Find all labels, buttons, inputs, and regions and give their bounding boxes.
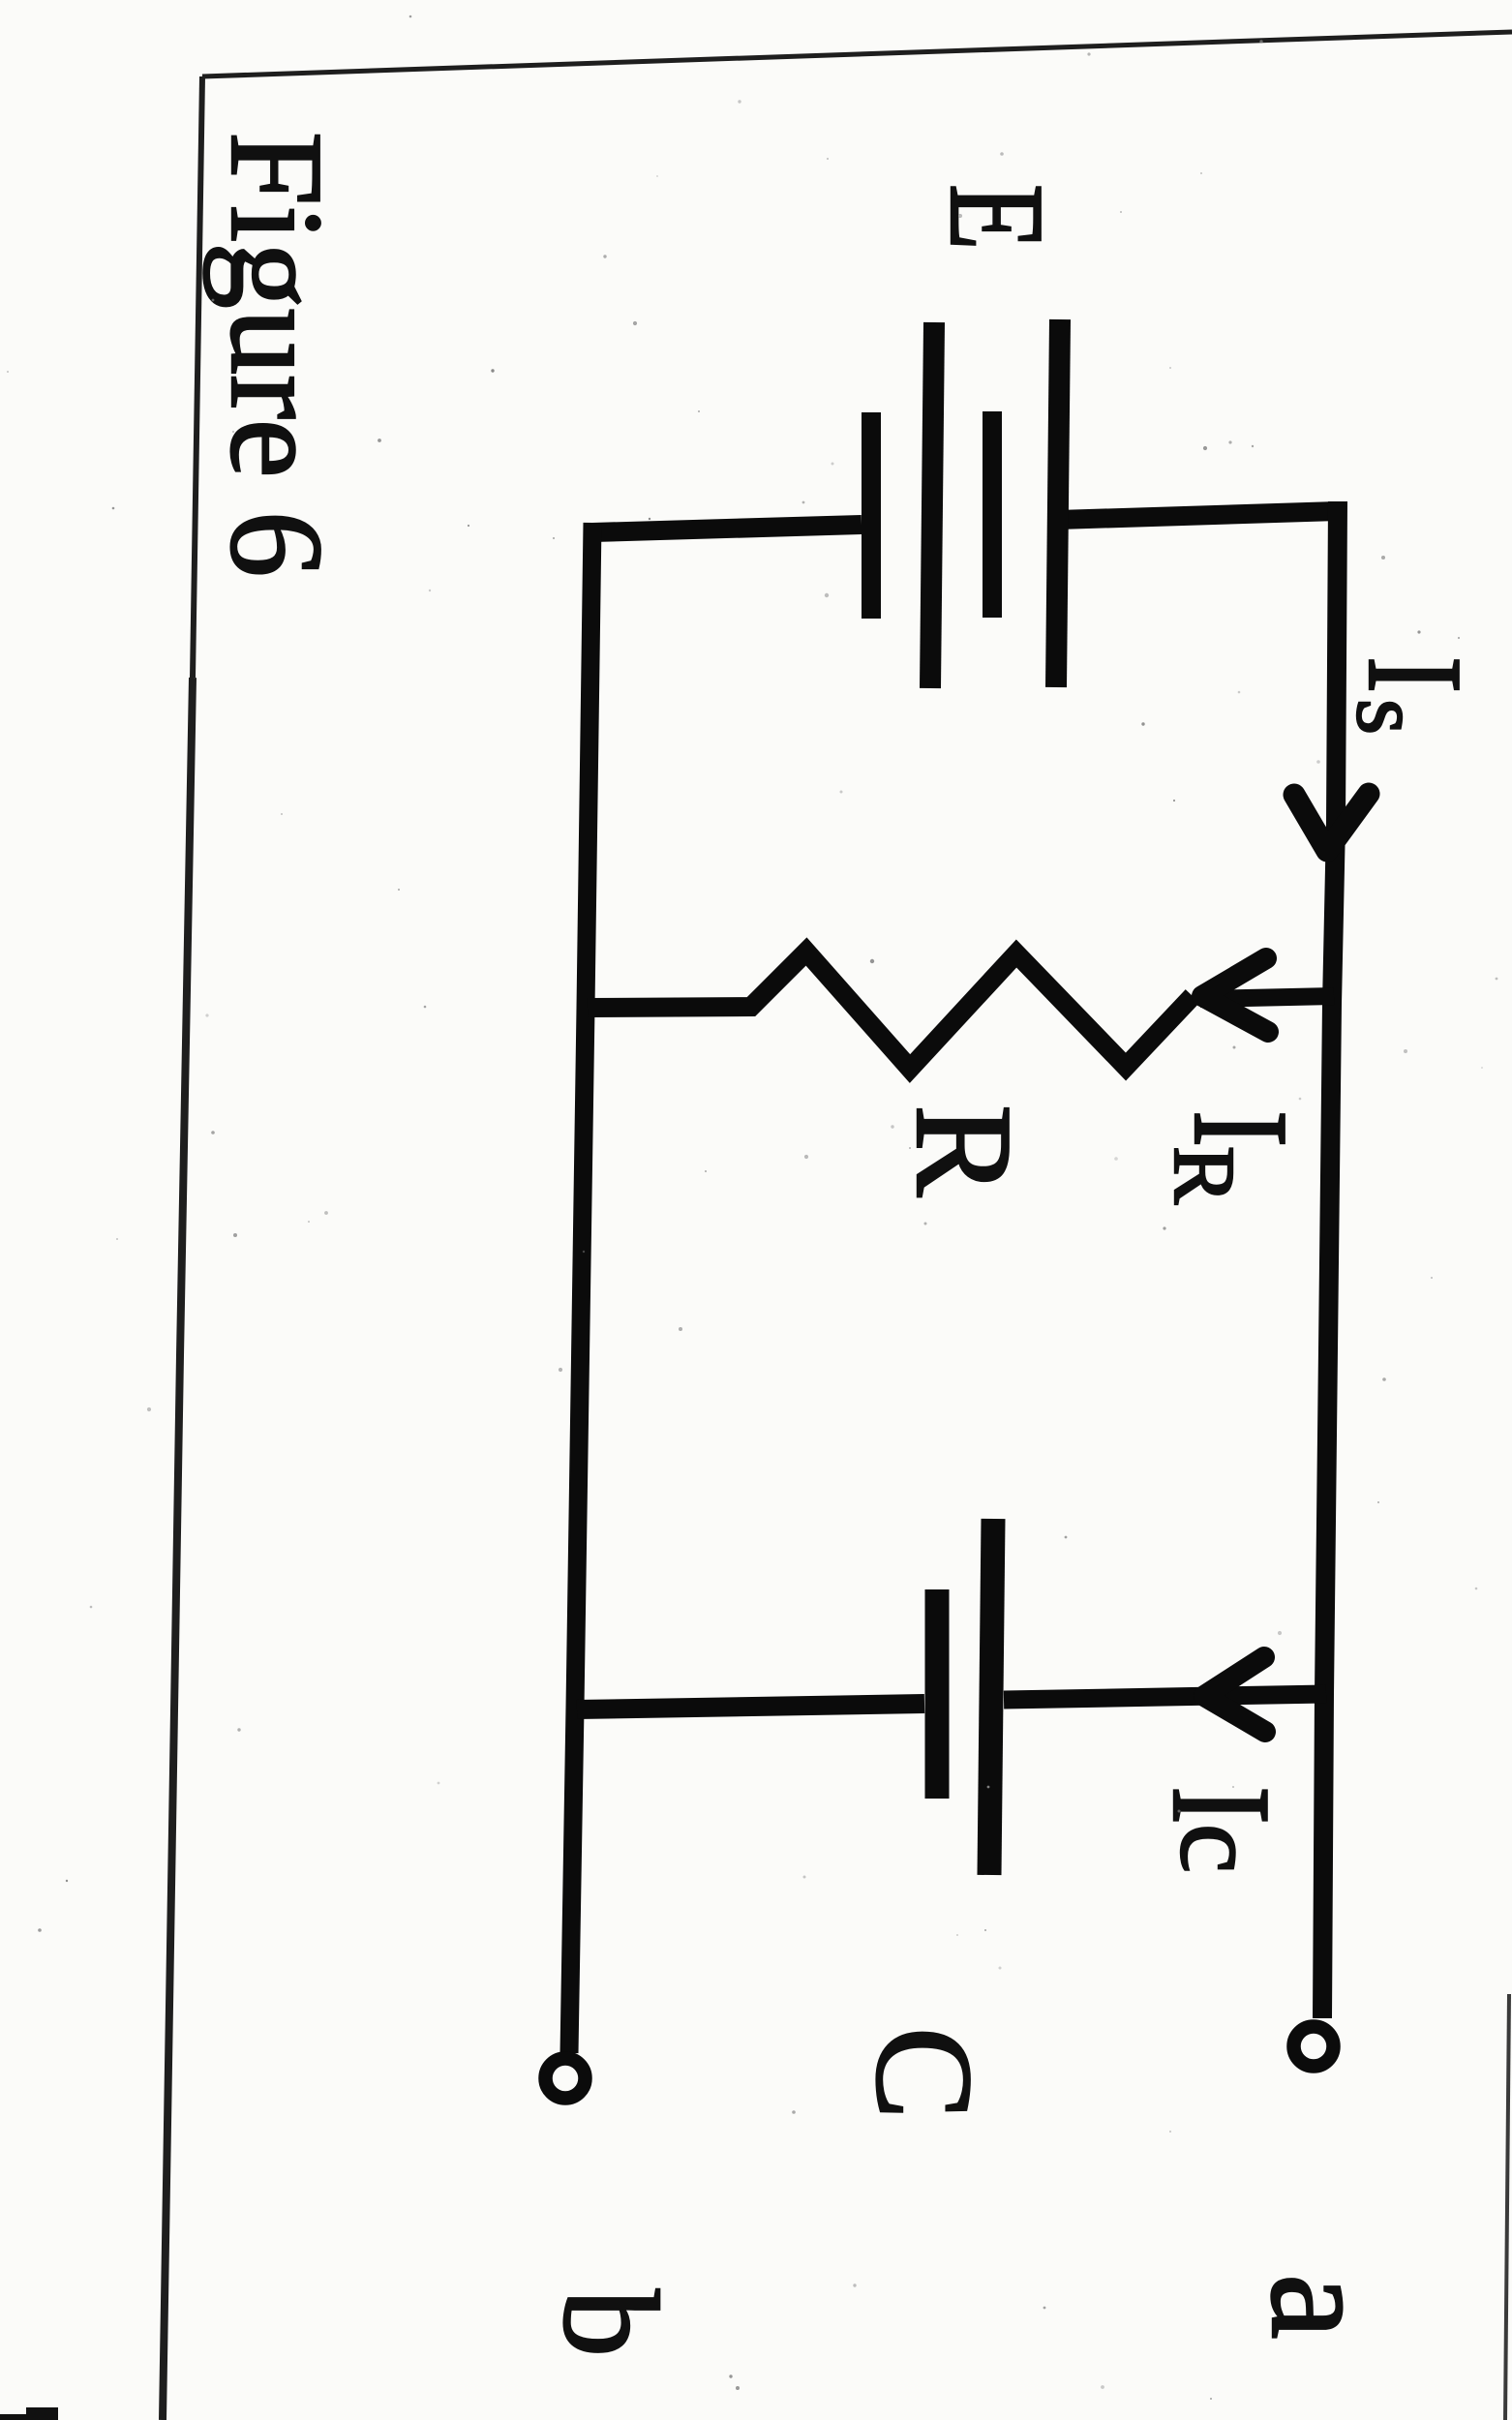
- svg-text:R: R: [888, 1104, 1041, 1197]
- svg-text:I: I: [1340, 656, 1490, 693]
- svg-text:E: E: [922, 184, 1072, 250]
- svg-text:b: b: [535, 2289, 685, 2357]
- svg-text:C: C: [848, 2027, 1001, 2119]
- svg-text:s: s: [1338, 699, 1440, 735]
- svg-text:a: a: [1241, 2274, 1404, 2339]
- svg-text:I: I: [1143, 1786, 1300, 1825]
- svg-text:c: c: [1158, 1824, 1281, 1873]
- svg-text:Figure 6: Figure 6: [203, 132, 350, 577]
- svg-text:I: I: [1165, 1110, 1315, 1147]
- svg-text:R: R: [1156, 1146, 1252, 1204]
